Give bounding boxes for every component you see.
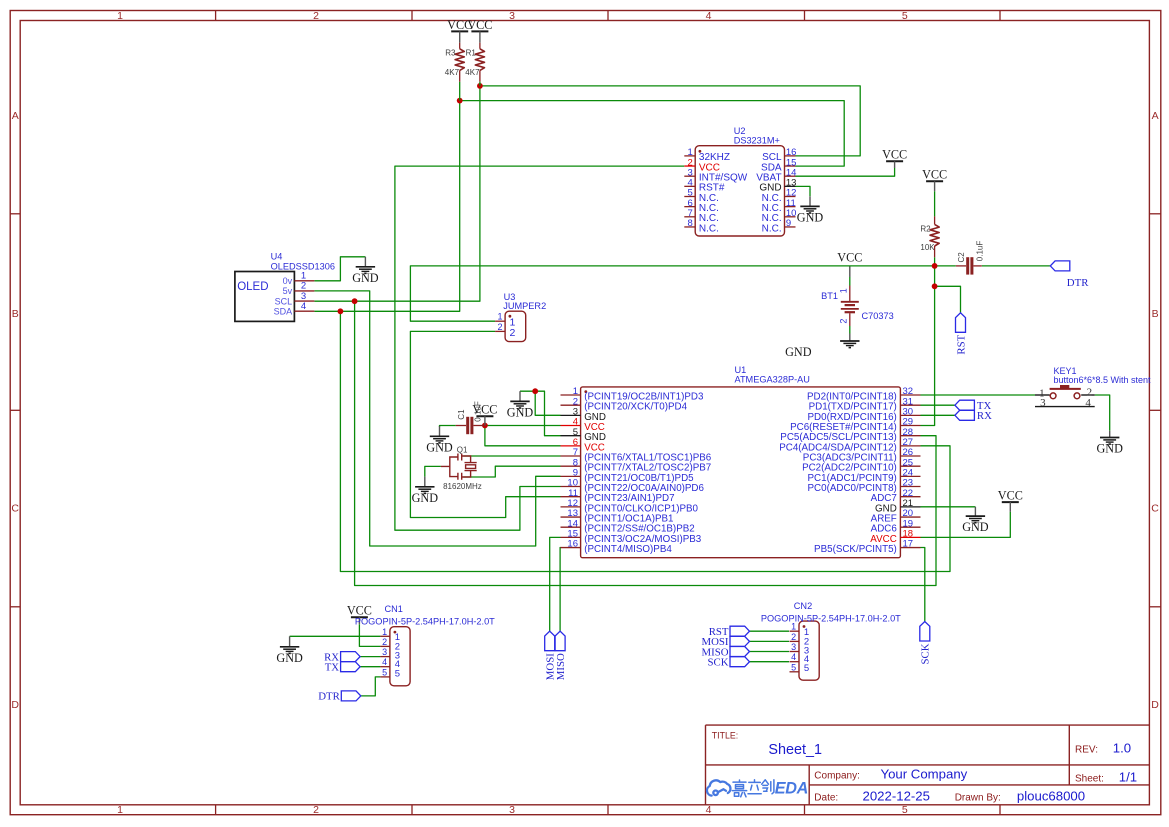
wire U1 MOSI pin15 to MOSI flag bbox=[550, 537, 561, 631]
svg-text:D: D bbox=[1151, 699, 1159, 711]
net flag MISO at CN2 pin3 bbox=[730, 647, 750, 657]
svg-text:GND: GND bbox=[797, 210, 824, 224]
wire junction to RST flag bbox=[935, 286, 961, 313]
svg-text:3: 3 bbox=[1040, 397, 1046, 409]
svg-text:2: 2 bbox=[510, 327, 516, 339]
svg-text:SCK: SCK bbox=[707, 657, 728, 669]
wire U1 MISO pin16 to MISO flag bbox=[559, 548, 561, 632]
svg-text:ATMEGA328P-AU: ATMEGA328P-AU bbox=[735, 375, 810, 385]
wire VCC symbol to CN1 pin2 bbox=[359, 624, 380, 646]
svg-text:TITLE:: TITLE: bbox=[712, 730, 738, 740]
U1 pin 17 PB5(SCK/PCINT5) bbox=[900, 547, 920, 549]
ground flag at OLED 0v bbox=[364, 257, 366, 267]
svg-text:2: 2 bbox=[313, 10, 319, 22]
svg-text:4: 4 bbox=[1085, 397, 1091, 409]
row ticks left bbox=[10, 213, 20, 215]
svg-text:DS3231M+: DS3231M+ bbox=[734, 136, 780, 146]
svg-text:C1: C1 bbox=[457, 409, 466, 420]
svg-text:81620MHz: 81620MHz bbox=[443, 482, 482, 491]
U4 pin 1 0v bbox=[294, 280, 314, 282]
svg-text:GND: GND bbox=[962, 520, 989, 534]
svg-text:GND: GND bbox=[785, 345, 812, 359]
svg-text:4K7: 4K7 bbox=[465, 68, 480, 77]
svg-text:3: 3 bbox=[509, 10, 515, 22]
net flag RST near R2 bbox=[956, 313, 966, 333]
svg-text:(PCINT4/MISO)PB4: (PCINT4/MISO)PB4 bbox=[584, 544, 672, 555]
svg-text:5: 5 bbox=[791, 662, 796, 672]
svg-text:1: 1 bbox=[382, 627, 387, 637]
U1 pin 10 (PCINT22/OC0A/AIN0)PD6 bbox=[561, 486, 581, 488]
wire SCK flag to CN2 pin4 bbox=[750, 661, 790, 663]
svg-text:button6*6*8.5 With stent: button6*6*8.5 With stent bbox=[1054, 375, 1152, 385]
wire U3 pin2 to U1 PD7 bbox=[410, 331, 560, 517]
svg-text:5: 5 bbox=[395, 668, 400, 679]
svg-text:C: C bbox=[1151, 503, 1159, 515]
junction SCL at OLED row bbox=[352, 298, 358, 304]
U1 pin 13 (PCINT1/OC1A)PB1 bbox=[561, 516, 581, 518]
svg-text:1: 1 bbox=[117, 804, 123, 816]
ground flag below battery BT1 bbox=[849, 334, 851, 342]
U1 pin 24 PC1(ADC1/PCINT9) bbox=[900, 475, 920, 477]
U1 pin 3 GND bbox=[561, 414, 581, 416]
wire battery bottom to GND bbox=[849, 326, 851, 334]
svg-text:4: 4 bbox=[382, 657, 387, 667]
CN1 pin 1 bbox=[380, 635, 390, 637]
svg-text:R2: R2 bbox=[920, 225, 931, 234]
U1 pin 23 PC0(ADC0/PCINT8) bbox=[900, 486, 920, 488]
U2 pin 15 SDA bbox=[785, 165, 796, 167]
U1 pin 30 PD0(RXD/PCINT16) bbox=[900, 414, 920, 416]
svg-text:GND: GND bbox=[507, 405, 534, 419]
U2 pin 2 VCC bbox=[684, 165, 695, 167]
svg-text:1: 1 bbox=[497, 312, 502, 322]
wire OLED 5v to U1 PD5 bbox=[314, 291, 560, 546]
svg-text:2: 2 bbox=[839, 319, 849, 324]
svg-text:MISO: MISO bbox=[555, 653, 567, 680]
U1 pin 26 PC3(ADC3/PCINT11) bbox=[900, 455, 920, 457]
wire SCL pullup R1 to U2 SCL bbox=[480, 86, 860, 156]
svg-text:VCC: VCC bbox=[998, 489, 1023, 503]
wire VCC long horizontal to U3 pin1 bbox=[410, 266, 934, 321]
svg-text:BT1: BT1 bbox=[821, 291, 838, 301]
svg-text:4: 4 bbox=[706, 804, 712, 816]
wire C2 left lead bbox=[935, 265, 956, 267]
wire SCL column down to OLED SCL row bbox=[314, 86, 480, 301]
CN1 pin 4 bbox=[380, 666, 390, 668]
U1 pin 25 PC2(ADC2/PCINT10) bbox=[900, 465, 920, 467]
svg-text:Sheet_1: Sheet_1 bbox=[768, 742, 822, 758]
svg-text:SDA: SDA bbox=[274, 306, 293, 316]
resistor R3 4K7 bbox=[459, 43, 461, 49]
U4 pin 4 SDA bbox=[294, 310, 314, 312]
net flag SCK below U1 pin17 bbox=[920, 622, 930, 642]
wire Q1 top to U1 XTAL1 pin7 bbox=[464, 455, 561, 457]
wire C1 left to GND elbow bbox=[440, 426, 456, 428]
IC U2 DS3231M+ bbox=[695, 146, 784, 236]
U1 pin 32 PD2(INT0/PCINT18) bbox=[900, 394, 920, 396]
resistor R2 10K bbox=[934, 216, 936, 224]
MCU U1 ATMEGA328P-AU bbox=[581, 387, 901, 558]
svg-text:VCC: VCC bbox=[882, 148, 907, 162]
wire MISO flag to CN2 pin3 bbox=[750, 651, 790, 653]
U1 pin 2 (PCINT20/XCK/T0)PD4 bbox=[561, 404, 581, 406]
svg-text:2: 2 bbox=[313, 804, 319, 816]
capacitor C2 0.1uF bbox=[956, 265, 966, 267]
svg-text:VCC: VCC bbox=[922, 168, 947, 182]
wire Q1 tap to GND bbox=[425, 466, 441, 476]
wire VCC symbol to R2 top bbox=[934, 191, 936, 216]
wire C2 right to DTR flag bbox=[982, 265, 1051, 267]
U1 pin 15 (PCINT3/OC2A/MOSI)PB3 bbox=[561, 536, 581, 538]
net flag TX at U1 pin31 bbox=[955, 400, 975, 410]
svg-text:5: 5 bbox=[382, 667, 387, 677]
wire VCC junction down to U1 VCC pin6 bbox=[485, 426, 561, 446]
svg-text:Sheet:: Sheet: bbox=[1075, 773, 1104, 784]
CN2 pin 3 bbox=[790, 651, 800, 653]
wire battery top to VCC net bbox=[849, 277, 851, 286]
svg-text:A: A bbox=[12, 110, 19, 122]
battery BT1 C70373 bbox=[849, 286, 851, 302]
U1 pin 5 GND bbox=[561, 435, 581, 437]
wire CN1 pin1 to GND bbox=[290, 635, 381, 637]
U1 pin 21 GND bbox=[900, 506, 920, 508]
U1 pin 22 ADC7 bbox=[900, 496, 920, 498]
U2 pin 4 RST# bbox=[684, 185, 695, 187]
U1 pin 28 PC5(ADC5/SCL/PCINT13) bbox=[900, 435, 920, 437]
U2 pin 9 N.C. bbox=[785, 226, 796, 228]
U2 pin 11 N.C. bbox=[785, 206, 796, 208]
U1 pin 6 VCC bbox=[561, 445, 581, 447]
U1 pin 4 VCC bbox=[561, 425, 581, 427]
net flag SCK at CN2 pin4 bbox=[730, 657, 750, 667]
svg-text:17: 17 bbox=[903, 539, 914, 550]
svg-text:R3: R3 bbox=[445, 49, 456, 58]
ground flag at CN1 pin1 bbox=[289, 636, 291, 647]
U1 pin 1 (PCINT19/OC2B/INT1)PD3 bbox=[561, 394, 581, 396]
svg-text:B: B bbox=[1152, 308, 1159, 320]
svg-text:16: 16 bbox=[567, 539, 578, 550]
svg-text:PB5(SCK/PCINT5): PB5(SCK/PCINT5) bbox=[814, 544, 897, 555]
svg-text:U4: U4 bbox=[271, 251, 283, 261]
U1 pin 12 (PCINT0/CLKO/ICP1)PB0 bbox=[561, 506, 581, 508]
JLCEDA logo chinese text 嘉立创 bbox=[732, 780, 774, 797]
wire RX flag to CN1 pin3 bbox=[360, 656, 380, 658]
connector CN2 POGOPIN-5P bbox=[799, 621, 819, 680]
svg-text:1: 1 bbox=[839, 288, 849, 293]
U3 pin 2 bbox=[495, 330, 505, 332]
net flag MOSI at CN2 pin2 bbox=[730, 636, 750, 646]
svg-text:POGOPIN-5P-2.54PH-17.0H-2.0T: POGOPIN-5P-2.54PH-17.0H-2.0T bbox=[355, 616, 495, 626]
svg-text:5: 5 bbox=[902, 10, 908, 22]
U2 pin 6 N.C. bbox=[684, 206, 695, 208]
wire U1 AVCC pin18 to VCC symbol bbox=[921, 512, 1011, 538]
svg-text:3: 3 bbox=[509, 804, 515, 816]
svg-text:1: 1 bbox=[791, 622, 796, 632]
ground flag at U1 pin21 bbox=[974, 507, 976, 516]
wire MOSI flag to CN2 pin2 bbox=[750, 640, 790, 642]
svg-text:GND: GND bbox=[1096, 442, 1123, 456]
svg-text:TX: TX bbox=[325, 662, 340, 674]
svg-text:RX: RX bbox=[977, 410, 992, 422]
U2 pin 16 SCL bbox=[785, 155, 796, 157]
wire RST vertical to U1 RESET pin29 bbox=[921, 266, 935, 426]
wire C1 right junction to U1 VCC pin4 bbox=[485, 425, 561, 427]
U1 pin 7 (PCINT6/XTAL1/TOSC1)PB6 bbox=[561, 455, 581, 457]
ground flag below C1 bbox=[439, 426, 441, 436]
wire U2 VCC pin2 to U1 PD6 bbox=[395, 166, 684, 530]
U4 pin 3 SCL bbox=[294, 300, 314, 302]
U1 pin 14 (PCINT2/SS#/OC1B)PB2 bbox=[561, 526, 581, 528]
junction GND pins 3-5 bbox=[532, 388, 538, 394]
resistor R1 4K7 bbox=[479, 43, 481, 49]
U2 pin 13 GND bbox=[785, 185, 796, 187]
svg-text:0v: 0v bbox=[283, 276, 293, 286]
U2 pin 8 N.C. bbox=[684, 226, 695, 228]
wire TX flag to CN1 pin4 bbox=[360, 666, 380, 668]
svg-text:SCK: SCK bbox=[920, 643, 932, 664]
svg-text:1: 1 bbox=[117, 10, 123, 22]
wire SDA column down to OLED SDA row bbox=[314, 101, 459, 312]
svg-text:CN2: CN2 bbox=[794, 601, 812, 611]
svg-text:SCL: SCL bbox=[275, 296, 293, 306]
svg-text:CN1: CN1 bbox=[385, 604, 403, 614]
svg-text:2022-12-25: 2022-12-25 bbox=[863, 789, 930, 804]
connector CN1 POGOPIN-5P bbox=[390, 627, 410, 686]
column ticks bottom bbox=[215, 805, 217, 815]
svg-text:U1: U1 bbox=[735, 365, 747, 375]
CN1 pin 3 bbox=[380, 656, 390, 658]
svg-text:4K7: 4K7 bbox=[445, 68, 460, 77]
svg-text:Company:: Company: bbox=[814, 770, 860, 781]
svg-text:10K: 10K bbox=[920, 243, 935, 252]
wire Q1 bottom to U1 XTAL2 pin8 bbox=[464, 466, 561, 477]
svg-text:4: 4 bbox=[706, 10, 712, 22]
net flag MOSI below U1 bbox=[545, 631, 555, 651]
svg-text:JUMPER2: JUMPER2 bbox=[503, 301, 546, 311]
svg-text:DTR: DTR bbox=[1067, 277, 1089, 289]
svg-text:VCC: VCC bbox=[467, 18, 492, 32]
U1 pin 9 (PCINT21/OC0B/T1)PD5 bbox=[561, 475, 581, 477]
U4 pin 2 5v bbox=[294, 290, 314, 292]
U2 pin 12 N.C. bbox=[785, 196, 796, 198]
U1 pin 18 AVCC bbox=[900, 536, 920, 538]
svg-text:Your Company: Your Company bbox=[881, 767, 968, 782]
svg-text:GND: GND bbox=[276, 651, 303, 665]
svg-text:C2: C2 bbox=[957, 252, 966, 263]
svg-text:1/1: 1/1 bbox=[1119, 769, 1137, 784]
ground flag at U2 GND pin13 bbox=[796, 186, 811, 196]
wire DTR flag to CN1 pin5 bbox=[361, 677, 381, 696]
CN2 pin 4 bbox=[790, 661, 800, 663]
CN1 pin 2 bbox=[380, 645, 390, 647]
U2 pin 7 N.C. bbox=[684, 216, 695, 218]
U2 pin 1 32KHZ bbox=[684, 155, 695, 157]
JLCEDA logo cloud icon bbox=[707, 780, 730, 795]
svg-text:DTR: DTR bbox=[318, 691, 340, 703]
wire KEY1 pin2 to GND bbox=[1095, 395, 1110, 431]
svg-text:5: 5 bbox=[804, 663, 809, 674]
U1 pin 16 (PCINT4/MISO)PB4 bbox=[561, 547, 581, 549]
svg-text:5: 5 bbox=[902, 804, 908, 816]
svg-text:EDA: EDA bbox=[775, 779, 808, 797]
svg-text:R1: R1 bbox=[466, 49, 477, 58]
svg-text:0.1uF: 0.1uF bbox=[473, 401, 482, 422]
CN2 pin 5 bbox=[790, 671, 800, 673]
net flag RX at U1 pin30 bbox=[955, 410, 975, 420]
row ticks right bbox=[1149, 213, 1160, 215]
svg-text:0.1uF: 0.1uF bbox=[975, 241, 984, 262]
wire SDA pullup R3 to U2 SDA bbox=[460, 101, 845, 167]
CN1 pin 5 bbox=[380, 676, 390, 678]
push button KEY1 bbox=[1035, 394, 1050, 396]
U1 pin 29 PC6(RESET#/PCINT14) bbox=[900, 425, 920, 427]
ground flag at U1 pins 3/5 bbox=[519, 391, 521, 401]
svg-text:4: 4 bbox=[301, 301, 306, 312]
svg-text:4: 4 bbox=[791, 652, 796, 662]
net flag TX at CN1 pin4 bbox=[341, 662, 361, 672]
svg-text:2: 2 bbox=[497, 322, 502, 332]
svg-text:GND: GND bbox=[352, 271, 379, 285]
net flag MISO below U1 bbox=[555, 631, 565, 651]
svg-text:POGOPIN-5P-2.54PH-17.0H-2.0T: POGOPIN-5P-2.54PH-17.0H-2.0T bbox=[761, 614, 901, 624]
U2 pin 3 INT#/SQW bbox=[684, 175, 695, 177]
ground flag below Q1 bbox=[424, 477, 426, 487]
crystal Q1 81620MHz bbox=[441, 454, 477, 480]
svg-text:2: 2 bbox=[382, 637, 387, 647]
wire U1 PD2 pin32 to KEY1 bbox=[921, 394, 1036, 396]
U3 pin 1 bbox=[495, 320, 505, 322]
net flag RX at CN1 pin3 bbox=[341, 652, 361, 662]
svg-text:9: 9 bbox=[786, 218, 791, 229]
title block outline bbox=[706, 725, 1150, 805]
U1 pin 27 PC4(ADC4/SDA/PCINT12) bbox=[900, 445, 920, 447]
svg-text:REV:: REV: bbox=[1075, 744, 1098, 755]
wire U1 TXD pin31 to TX flag bbox=[921, 404, 955, 406]
svg-text:Drawn By:: Drawn By: bbox=[955, 792, 1001, 803]
svg-text:U2: U2 bbox=[734, 126, 746, 136]
U2 pin 5 N.C. bbox=[684, 196, 695, 198]
svg-text:B: B bbox=[12, 308, 19, 320]
U1 pin 11 (PCINT23/AIN1)PD7 bbox=[561, 496, 581, 498]
wire RST flag to CN2 pin1 bbox=[750, 630, 790, 632]
junction VCC/R2/C2 bbox=[932, 263, 938, 269]
junction R3/SDA bbox=[457, 98, 463, 104]
U1 pin 20 AREF bbox=[900, 516, 920, 518]
jumper U3 JUMPER2 bbox=[505, 311, 526, 341]
net flag DTR right end bbox=[1050, 261, 1070, 271]
junction R1/SCL bbox=[477, 83, 483, 89]
wire U1 GND pin21 to GND symbol bbox=[921, 506, 976, 508]
svg-text:8: 8 bbox=[688, 218, 693, 229]
svg-text:1.0: 1.0 bbox=[1113, 741, 1131, 756]
svg-text:5v: 5v bbox=[283, 286, 293, 296]
wire SCL run to U1 PC5 bbox=[355, 301, 936, 585]
svg-text:GND: GND bbox=[426, 440, 453, 454]
svg-text:OLED: OLED bbox=[237, 281, 268, 293]
ground flag at KEY1 bbox=[1109, 431, 1111, 438]
svg-text:2: 2 bbox=[791, 632, 796, 642]
svg-text:N.C.: N.C. bbox=[762, 223, 782, 234]
wire R2 bottom to junction bbox=[934, 257, 936, 266]
svg-text:D: D bbox=[11, 699, 19, 711]
svg-text:Q1: Q1 bbox=[457, 445, 468, 454]
wire U1 SCK pin17 to SCK flag bbox=[921, 548, 925, 622]
U1 pin 31 PD1(TXD/PCINT17) bbox=[900, 404, 920, 406]
junction VCC/C1/pin4 bbox=[482, 423, 488, 429]
wire GND to U1 pin3 and pin5 bbox=[520, 391, 561, 436]
column ticks top bbox=[215, 11, 217, 21]
svg-text:C: C bbox=[11, 503, 19, 515]
capacitor C1 0.1uF bbox=[456, 425, 466, 427]
svg-text:3: 3 bbox=[791, 642, 796, 652]
junction SDA at OLED row bbox=[338, 308, 344, 314]
net flag DTR at CN1 pin5 bbox=[341, 691, 361, 701]
wire OLED 0v to GND bbox=[314, 257, 365, 281]
svg-text:N.C.: N.C. bbox=[699, 223, 719, 234]
svg-text:RST: RST bbox=[955, 334, 967, 354]
svg-text:A: A bbox=[1152, 110, 1159, 122]
svg-text:plouc68000: plouc68000 bbox=[1017, 789, 1085, 804]
CN2 pin 2 bbox=[790, 640, 800, 642]
U2 pin 14 VBAT bbox=[785, 175, 796, 177]
U1 pin 8 (PCINT7/XTAL2/TOSC2)PB7 bbox=[561, 465, 581, 467]
module U4 OLEDSSD1306 bbox=[235, 272, 295, 322]
svg-text:VCC: VCC bbox=[837, 251, 862, 265]
net flag RST at CN2 pin1 bbox=[730, 626, 750, 636]
U2 pin 10 N.C. bbox=[785, 216, 796, 218]
svg-text:GND: GND bbox=[412, 491, 439, 505]
svg-text:Date:: Date: bbox=[814, 792, 838, 803]
svg-text:3: 3 bbox=[382, 647, 387, 657]
svg-text:C70373: C70373 bbox=[862, 311, 894, 321]
wire SDA run to U1 PC4 bbox=[340, 311, 950, 571]
wire U1 RXD pin30 to RX flag bbox=[921, 414, 955, 416]
CN2 pin 1 bbox=[790, 630, 800, 632]
U1 pin 19 ADC6 bbox=[900, 526, 920, 528]
junction RST branch bbox=[932, 283, 938, 289]
